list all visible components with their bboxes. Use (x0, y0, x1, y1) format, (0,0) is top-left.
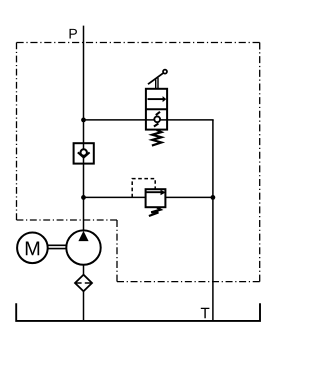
F1 diamond (75, 275, 92, 292)
enclosure boundary notch vertical edge (dash-dot) (116, 220, 118, 282)
wire filter to tank (83, 291, 85, 321)
wire branch P to shutoff valve (84, 119, 146, 121)
wire pump suction down to filter (83, 265, 85, 276)
CV1 square body (74, 143, 94, 163)
hydraulic pump P1 (66, 230, 100, 264)
relief valve RV1 (pilot-operated, spring return) (132, 179, 166, 216)
M1 letter (26, 241, 39, 255)
port label T (201, 308, 210, 318)
filter F1 (75, 275, 92, 292)
enclosure boundary left edge (dash-dot) (16, 43, 18, 221)
RV1 pilot line (dashed) (132, 179, 155, 198)
V1 return spring (152, 130, 162, 146)
V1 lever stem (double line) (155, 79, 157, 89)
V1 lever arm (148, 73, 163, 84)
CV1 seat chevron (78, 152, 90, 157)
M1 circle (17, 233, 48, 264)
P1 outlet triangle (78, 231, 88, 241)
RV1 spring (149, 208, 161, 217)
tank line (bottom) (16, 303, 260, 321)
check valve CV1 (in square, on P line) (74, 143, 94, 163)
V1 closed-position check seat lines (156, 112, 160, 115)
P1 circle (66, 230, 100, 264)
V1 lever knob (163, 70, 167, 74)
shaft coupling motor-pump (double line) (48, 245, 66, 248)
wire pressure line P (vertical) (83, 26, 85, 231)
RV1 body (146, 189, 166, 207)
V1 body two-position box (146, 89, 167, 130)
wire relief valve outlet to T line (165, 196, 213, 198)
V1 closed-position check ball (154, 116, 160, 122)
F1 element (dashed) (75, 282, 91, 284)
node junction P/valve branch (81, 118, 86, 123)
enclosure boundary bottom edge (dash-dot) (117, 281, 260, 283)
electric motor M1 (17, 233, 48, 264)
port label P (70, 29, 77, 39)
node junction relief/T line (211, 195, 216, 200)
wire branch P to relief valve (84, 196, 146, 198)
enclosure boundary right edge (dash-dot) (259, 43, 261, 282)
CV1 ball (81, 149, 87, 155)
wire valve to T line (167, 120, 213, 121)
wire return line T (vertical) (212, 120, 214, 321)
shutoff valve V1 (2/2 lever-operated) (146, 70, 167, 146)
V1 flow path through closed position (146, 119, 167, 121)
enclosure boundary top edge (dash-dot) (17, 42, 260, 44)
RV1 flow arrow (146, 191, 161, 193)
V1 open-position arrow (148, 98, 164, 100)
node junction P/relief branch (81, 195, 86, 200)
V1 position divider (146, 108, 167, 110)
enclosure boundary notch horizontal edge (dash-dot) (17, 219, 118, 221)
